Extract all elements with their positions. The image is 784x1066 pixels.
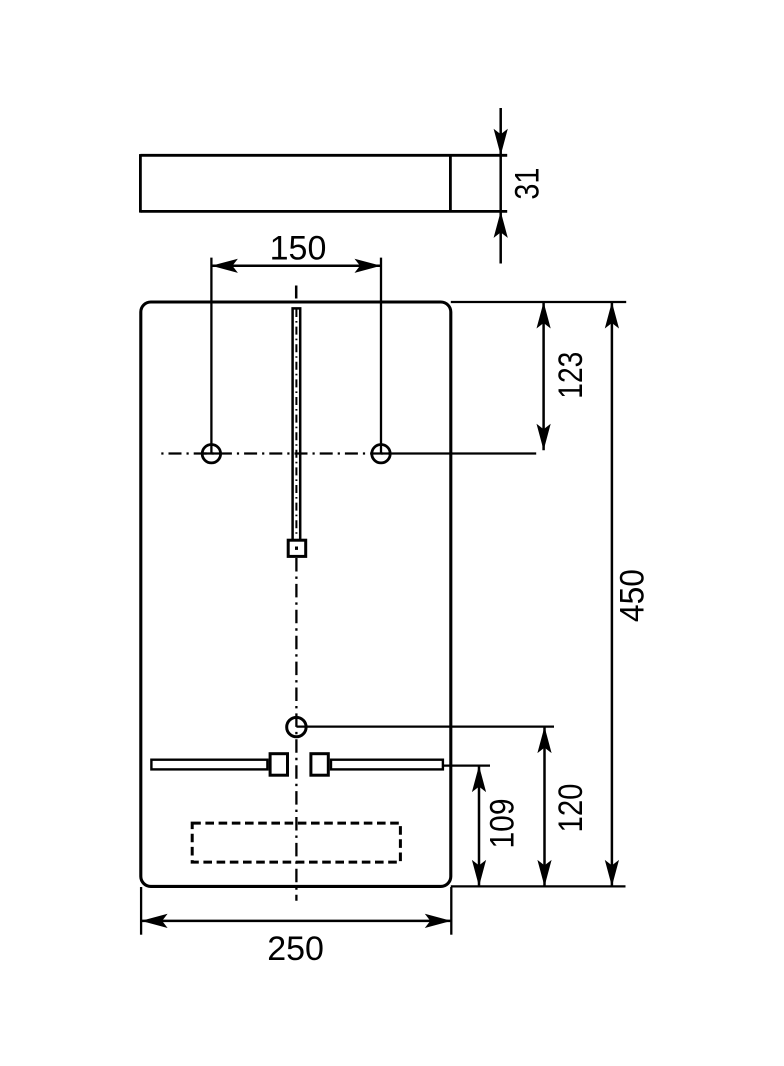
solid segment across left hole <box>202 452 221 454</box>
svg-text:120: 120 <box>552 784 590 833</box>
vertical slot <box>293 308 301 539</box>
slot centerline <box>295 309 297 537</box>
left slot bar <box>151 760 267 770</box>
extension line from slot <box>444 764 490 766</box>
right slot square <box>311 754 328 776</box>
dimension 450 line <box>611 302 614 886</box>
svg-text:250: 250 <box>267 930 324 968</box>
dimension 150 line <box>211 265 381 268</box>
extension line from circle <box>296 725 554 727</box>
svg-text:31: 31 <box>508 168 546 200</box>
dimension 123 line <box>542 302 545 450</box>
dimension 150 arrows <box>211 259 238 273</box>
left hole <box>202 445 220 463</box>
centerline above plate <box>295 286 298 299</box>
svg-text:123: 123 <box>552 352 590 399</box>
right slot bar <box>331 760 443 770</box>
right hole <box>372 445 390 463</box>
horizontal centerline through holes <box>161 452 391 454</box>
svg-text:109: 109 <box>484 799 522 849</box>
top extension line <box>451 301 626 303</box>
svg-text:450: 450 <box>614 569 652 622</box>
centerline solid extension to 123 dim <box>381 452 536 454</box>
dimension 31 arrows <box>494 129 508 156</box>
extension lines 150 <box>210 258 212 454</box>
side view body <box>140 154 507 213</box>
extension lines 250 <box>140 887 142 935</box>
svg-text:150: 150 <box>270 230 327 268</box>
centerline dot in square <box>295 547 298 550</box>
lower circle <box>287 717 306 736</box>
dimension 31 line <box>499 108 502 264</box>
dashed rectangle <box>192 823 400 862</box>
left slot square <box>270 754 287 776</box>
bottom extension line <box>451 885 626 887</box>
vertical centerline <box>295 558 297 901</box>
square at slot bottom <box>288 540 306 556</box>
dimension 109 line <box>478 766 481 887</box>
plate outline <box>141 302 451 886</box>
dimension 120 line <box>543 727 546 887</box>
dimension 250 line <box>141 920 451 923</box>
